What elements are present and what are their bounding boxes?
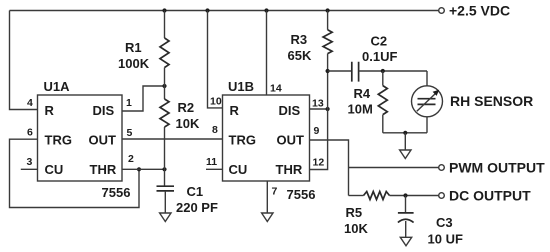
wire CU stub U1B	[206, 168, 223, 170]
node DC-C3	[403, 193, 407, 197]
node DIS-13	[326, 107, 330, 111]
resistor R4	[382, 71, 384, 86]
svg-text:2: 2	[128, 153, 134, 165]
node R1-R2-DIS	[162, 84, 166, 88]
svg-text:R5: R5	[346, 205, 363, 220]
wire DC output	[390, 195, 439, 197]
svg-text:7: 7	[272, 186, 278, 198]
RH sensor	[426, 71, 428, 86]
wire pin10 R U1B	[208, 11, 223, 108]
svg-text:10K: 10K	[176, 116, 200, 131]
ground C3	[400, 237, 411, 246]
resistor R5	[349, 195, 364, 197]
ground U1B	[262, 213, 273, 222]
op-amp U1A box	[38, 95, 123, 181]
svg-text:R: R	[230, 103, 240, 118]
wire pin7 ground U1B	[266, 181, 268, 213]
svg-text:R1: R1	[125, 40, 142, 55]
svg-text:7556: 7556	[287, 187, 316, 202]
svg-text:13: 13	[312, 98, 324, 110]
node R3-C2	[326, 69, 330, 73]
node rail-R1	[162, 8, 166, 12]
svg-text:14: 14	[270, 83, 282, 95]
svg-text:R3: R3	[291, 32, 308, 47]
svg-text:C1: C1	[187, 184, 204, 199]
node C2-R4	[381, 69, 385, 73]
terminal +2.5 VDC	[439, 8, 445, 14]
svg-text:OUT: OUT	[89, 133, 117, 148]
svg-text:DIS: DIS	[93, 103, 115, 118]
ground C1	[160, 213, 171, 222]
svg-text:RH SENSOR: RH SENSOR	[450, 93, 533, 109]
svg-text:+2.5 VDC: +2.5 VDC	[449, 2, 510, 18]
svg-text:PWM OUTPUT: PWM OUTPUT	[449, 160, 545, 176]
svg-text:1: 1	[126, 97, 132, 109]
wire R4/RH bottom to ground	[383, 132, 427, 134]
node rail-pin14	[264, 8, 268, 12]
wire DIS pin13	[310, 108, 328, 110]
wire PWM output	[349, 167, 439, 169]
ground RH	[400, 150, 411, 159]
node rail-R3	[326, 8, 330, 12]
capacitor C3	[405, 196, 407, 213]
svg-text:TRG: TRG	[229, 133, 256, 148]
capacitor C1	[157, 186, 175, 191]
resistor R1	[164, 11, 166, 39]
svg-text:C2: C2	[371, 34, 388, 49]
svg-text:220 PF: 220 PF	[176, 200, 218, 215]
svg-text:6: 6	[27, 127, 33, 139]
svg-text:CU: CU	[45, 162, 64, 177]
wire OUT U1A to TRG U1B	[122, 138, 223, 140]
svg-text:9: 9	[314, 125, 320, 137]
svg-text:R: R	[45, 103, 55, 118]
svg-text:U1B: U1B	[228, 79, 254, 94]
op-amp U1B box	[223, 95, 310, 181]
svg-text:DIS: DIS	[279, 103, 301, 118]
wire THR pin12 to DIS vertical	[310, 71, 328, 170]
svg-text:100K: 100K	[118, 56, 150, 71]
capacitor C2	[328, 70, 352, 72]
svg-text:R4: R4	[354, 86, 371, 101]
svg-text:4: 4	[27, 97, 33, 109]
svg-text:5: 5	[127, 127, 133, 139]
svg-text:0.1UF: 0.1UF	[362, 49, 397, 64]
svg-text:U1A: U1A	[44, 79, 71, 94]
wire OUT pin9 down	[310, 140, 349, 196]
svg-text:12: 12	[313, 157, 325, 169]
wire top supply rail	[10, 10, 439, 12]
wire left vcc to pin4	[10, 11, 38, 110]
node gnd branch	[403, 131, 407, 135]
node THR-C1	[162, 167, 166, 171]
wire DIS pin1 to R1/R2 node	[122, 86, 165, 111]
svg-text:7556: 7556	[102, 185, 131, 200]
svg-text:10M: 10M	[348, 102, 373, 117]
svg-text:10 UF: 10 UF	[428, 232, 463, 247]
wire TRG feedback loop U1A	[10, 139, 140, 207]
svg-text:3: 3	[27, 156, 33, 168]
node rail-pin10	[205, 8, 209, 12]
svg-text:DC OUTPUT: DC OUTPUT	[449, 188, 531, 204]
svg-text:R2: R2	[178, 100, 195, 115]
svg-text:11: 11	[206, 156, 217, 168]
svg-text:OUT: OUT	[277, 133, 305, 148]
svg-text:CU: CU	[229, 162, 248, 177]
svg-text:TRG: TRG	[45, 133, 72, 148]
svg-text:THR: THR	[276, 162, 303, 177]
svg-text:65K: 65K	[288, 48, 312, 63]
svg-text:8: 8	[212, 124, 218, 136]
resistor R3	[327, 11, 329, 30]
svg-text:10K: 10K	[344, 221, 368, 236]
wire CU stub U1A	[21, 168, 38, 170]
resistor R2	[160, 99, 169, 127]
node feedback-THR	[137, 167, 141, 171]
svg-text:10: 10	[210, 96, 222, 108]
wire THR pin2 U1A	[122, 168, 165, 170]
wire pin14 vcc U1B	[266, 11, 268, 96]
svg-text:THR: THR	[90, 162, 117, 177]
svg-text:C3: C3	[436, 215, 453, 230]
